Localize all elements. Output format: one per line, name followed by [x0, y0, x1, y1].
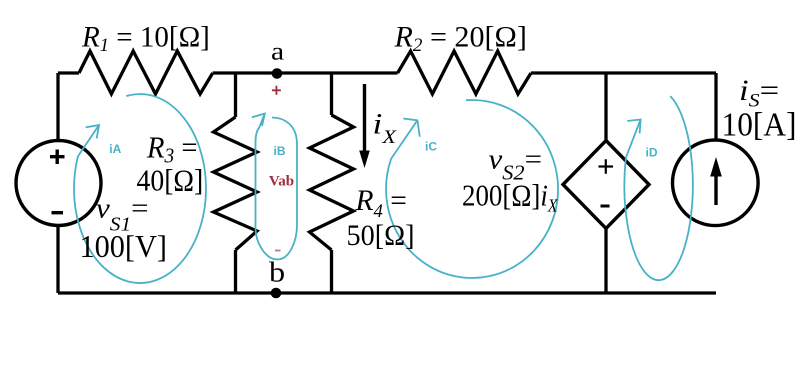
svg-text:iX​: iX​: [373, 108, 398, 148]
svg-text:R4 =: R4 =: [355, 184, 407, 222]
wire: branch from top rail down to vS2: [604, 73, 607, 141]
wire: branch from top rail down to R4: [330, 73, 333, 115]
svg-text:iD: iD: [646, 146, 658, 160]
current arrow iX shaft: [363, 84, 366, 153]
svg-text:200[Ω]iX​: 200[Ω]iX​: [462, 179, 558, 216]
wire: top rail from R1 to R2 through node a: [213, 71, 398, 74]
label 10[A]: [722, 107, 797, 144]
svg-text:b: b: [269, 256, 285, 288]
label 40[Ohm]: [137, 164, 204, 198]
vS1 minus sign: [52, 211, 64, 214]
wire: branch from top rail down to R3: [234, 73, 237, 117]
resistor R2: [398, 51, 531, 94]
vS1 plus sign: [50, 150, 65, 165]
svg-text:10[A]: 10[A]: [722, 107, 797, 144]
label iX: [373, 108, 398, 148]
wire: from vS2 down to bottom rail: [604, 229, 607, 294]
label R4 =: [355, 184, 407, 222]
resistor R3: [214, 117, 258, 250]
iS arrow shaft: [714, 174, 717, 205]
wire: from R4 down to bottom rail: [330, 250, 333, 293]
mesh current loop iB: [256, 114, 298, 260]
svg-text:Vab: Vab: [269, 174, 294, 190]
svg-text:iA: iA: [109, 142, 121, 156]
label node b: [269, 256, 285, 288]
label 50[Ohm]: [347, 219, 415, 252]
mesh loop iA arrowhead: [86, 125, 99, 138]
label R1 = 10[Ohm]: [81, 21, 210, 56]
label vS2 =: [489, 144, 543, 185]
svg-text:R1 = 10[Ω]: R1 = 10[Ω]: [81, 21, 210, 56]
mesh loop iC arrowhead: [403, 119, 419, 137]
red minus above node b: [275, 250, 281, 252]
mesh current loop iA: [74, 94, 206, 283]
label vS1 =: [96, 193, 149, 236]
wire: left branch from vS1 down to bottom rail: [56, 226, 59, 294]
iS arrow head: [710, 157, 722, 177]
wire: top rail from R2 to top-right corner: [531, 71, 716, 74]
label R2 = 20[Ohm]: [393, 20, 526, 55]
mesh loop iD arrowhead: [627, 120, 640, 134]
wire: right branch from top rail down to iS: [714, 73, 717, 141]
resistor R4: [310, 115, 354, 250]
label node a: [271, 38, 284, 65]
node a junction dot: [272, 68, 283, 79]
voltage source vS1 circle: [16, 141, 101, 226]
svg-text:iC: iC: [425, 140, 437, 154]
label R3 =: [146, 131, 197, 168]
label 200[Ohm]iX: [462, 179, 558, 216]
svg-text:R2 = 20[Ω]: R2 = 20[Ω]: [393, 20, 526, 55]
svg-text:a: a: [271, 38, 284, 65]
wire: left branch from top rail down to vS1: [56, 73, 59, 141]
svg-text:100[V]: 100[V]: [80, 228, 167, 264]
svg-text:50[Ω]: 50[Ω]: [347, 219, 415, 252]
vS2 minus sign: [601, 205, 610, 208]
current arrow iX head: [359, 151, 370, 169]
mesh loop iB arrowhead: [252, 114, 265, 127]
resistor R1: [79, 51, 213, 94]
svg-text:iB: iB: [274, 144, 286, 158]
vS2 plus sign: [599, 159, 614, 173]
mesh current loop iD: [624, 96, 692, 280]
dependent source vS2 diamond: [563, 141, 649, 229]
wire: top-left corner to R1: [58, 71, 79, 74]
node b junction dot: [271, 288, 282, 299]
wire: bottom rail: [58, 291, 716, 294]
mesh current loop iC: [386, 100, 558, 278]
svg-text:R3 =: R3 =: [146, 131, 197, 168]
wire: from R3 down to bottom rail: [234, 250, 237, 293]
current source iS circle: [673, 140, 759, 226]
label 100[V]: [80, 228, 167, 264]
label iS =: [739, 74, 779, 111]
red plus under node a: [272, 86, 281, 95]
